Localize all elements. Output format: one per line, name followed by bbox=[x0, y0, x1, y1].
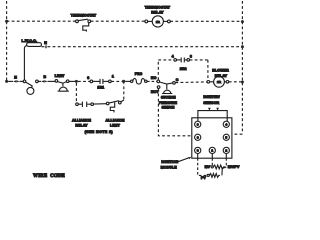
svg-text:1R1: 1R1 bbox=[97, 85, 104, 89]
svg-text:IGNITER/: IGNITER/ bbox=[203, 95, 219, 99]
blower relay 2R bbox=[207, 76, 229, 87]
svg-text:4: 4 bbox=[172, 55, 174, 59]
svg-text:9: 9 bbox=[197, 123, 199, 127]
svg-text:ALLIANCE: ALLIANCE bbox=[106, 119, 125, 123]
svg-text:5: 5 bbox=[225, 136, 227, 140]
wire: dashed riser from NO bbox=[157, 60, 159, 80]
L.W.C.O. device box bbox=[27, 43, 42, 47]
wire: top rung dashed between thermostat and relay bbox=[91, 20, 145, 22]
svg-text:NO: NO bbox=[151, 76, 157, 80]
svg-text:MV/PV: MV/PV bbox=[228, 165, 240, 169]
wire: FRS to NO bbox=[147, 80, 157, 82]
wire: main rung from bus bbox=[8, 80, 13, 82]
node: top-left junction bbox=[5, 20, 8, 23]
svg-text:3: 3 bbox=[197, 149, 199, 153]
svg-text:(SEE NOTE 2): (SEE NOTE 2) bbox=[85, 130, 114, 134]
svg-text:WIRE CODE: WIRE CODE bbox=[33, 174, 66, 179]
module terminal 9 bbox=[195, 121, 201, 127]
diaphragm dome bbox=[162, 90, 172, 93]
svg-text:SENSOR: SENSOR bbox=[203, 101, 219, 105]
svg-text:PV: PV bbox=[201, 176, 206, 180]
svg-text:PRESSURE: PRESSURE bbox=[159, 101, 178, 105]
wire: dashed to 1R1 bbox=[78, 80, 90, 82]
svg-text:BLOWER: BLOWER bbox=[212, 69, 229, 73]
wire: neutral rung dashed bbox=[48, 46, 243, 48]
node: rung/right bus junction bbox=[241, 81, 244, 84]
node: junction at alliance limit tap bbox=[122, 80, 125, 83]
svg-text:6: 6 bbox=[197, 136, 199, 140]
right vertical bus (dashed) bbox=[241, 1, 243, 134]
svg-text:B: B bbox=[44, 75, 47, 79]
svg-text:LIMIT: LIMIT bbox=[55, 74, 66, 78]
svg-text:MODULE: MODULE bbox=[161, 166, 178, 170]
gas valve MV coil bbox=[211, 165, 225, 169]
wire: dashed drop from junction bbox=[75, 83, 77, 103]
wire: dashed riser to junction bbox=[123, 83, 125, 99]
contact 2R2 bbox=[174, 58, 190, 63]
wire: dashed 2R2 to drop bbox=[190, 59, 208, 61]
float switch (L.W.C.O.) bbox=[23, 80, 38, 94]
wire: to FRS bbox=[125, 80, 130, 82]
contact 1R1 bbox=[90, 79, 111, 84]
svg-text:H: H bbox=[14, 75, 17, 79]
svg-text:4: 4 bbox=[225, 123, 227, 127]
stem bbox=[166, 84, 168, 89]
svg-text:1: 1 bbox=[211, 149, 213, 153]
label pointer arrow bbox=[177, 158, 190, 163]
svg-text:C: C bbox=[176, 78, 179, 82]
node: top-right junction bbox=[241, 20, 244, 23]
svg-text:MV: MV bbox=[205, 165, 211, 169]
node: left bus / main rung junction bbox=[5, 80, 8, 83]
switch blade bbox=[160, 82, 173, 84]
FRS fan relay switch bbox=[131, 79, 148, 85]
wire: limit to junction bbox=[69, 80, 75, 82]
limit switch bbox=[55, 80, 69, 92]
svg-text:SUCTION: SUCTION bbox=[161, 95, 176, 99]
svg-text:2: 2 bbox=[225, 149, 227, 153]
alliance limit switch bbox=[106, 100, 124, 113]
C terminal bbox=[173, 82, 176, 85]
thermostat relay 1R bbox=[145, 16, 170, 27]
svg-text:N: N bbox=[44, 41, 47, 45]
gas valve PV coil bbox=[207, 167, 226, 177]
wire: between contacts bbox=[94, 103, 107, 105]
svg-text:RELAY: RELAY bbox=[151, 10, 164, 14]
module terminal 4 bbox=[223, 121, 229, 127]
wire: dashed drop terminal 3 bbox=[197, 154, 199, 159]
svg-text:THERMOSTAT: THERMOSTAT bbox=[145, 6, 171, 10]
wire: box to N bbox=[42, 46, 45, 48]
svg-text:THERMOSTAT: THERMOSTAT bbox=[71, 13, 97, 17]
module terminal 6 bbox=[195, 134, 201, 140]
right bus elbow to ignition module bbox=[232, 133, 242, 135]
wire: segment to B marker bbox=[38, 80, 41, 82]
igniter/sensor bracket arrows bbox=[198, 111, 227, 121]
module terminal 1 bbox=[209, 147, 215, 153]
svg-text:2R2: 2R2 bbox=[180, 67, 187, 71]
wire: dashed drop terminal 2 bbox=[225, 154, 227, 159]
node: junction at alliance tap bbox=[75, 80, 78, 83]
svg-text:1R: 1R bbox=[156, 20, 161, 24]
NO terminal bbox=[157, 80, 160, 83]
node: neutral/right bus junction bbox=[241, 45, 244, 48]
left vertical bus (dashed) bbox=[6, 1, 8, 80]
svg-text:IGNITION: IGNITION bbox=[161, 160, 178, 164]
svg-text:3: 3 bbox=[87, 76, 89, 80]
HOT terminal bbox=[157, 86, 160, 89]
wire: top rung left dashed segment bbox=[7, 20, 76, 22]
svg-text:RELAY: RELAY bbox=[75, 124, 88, 128]
wire: dashed drop terminal 1 bbox=[211, 154, 213, 159]
thermostat switch bbox=[76, 19, 91, 31]
wire: dashed HOT drop to ignition module bbox=[158, 89, 191, 136]
svg-text:SWITCH: SWITCH bbox=[162, 106, 175, 110]
wire: top rung right dashed segment bbox=[170, 20, 242, 22]
module terminal 2 bbox=[223, 147, 229, 153]
svg-text:6: 6 bbox=[190, 55, 192, 59]
wire: drop from LWCO box to float switch bbox=[24, 46, 27, 80]
svg-text:LIMIT: LIMIT bbox=[110, 124, 121, 128]
wire: dashed C to blower relay bbox=[175, 81, 206, 84]
wire: relay to right bus dashed bbox=[229, 81, 241, 83]
wire: dashed to junction bbox=[111, 80, 122, 82]
svg-text:FRS: FRS bbox=[135, 72, 143, 76]
ignition module box bbox=[192, 118, 232, 158]
svg-text:2R: 2R bbox=[217, 80, 222, 84]
svg-text:ALLIANCE: ALLIANCE bbox=[72, 119, 91, 123]
contact alliance relay bbox=[76, 102, 94, 107]
module terminal 5 bbox=[223, 134, 229, 140]
module terminal 3 bbox=[195, 147, 201, 153]
svg-text:1: 1 bbox=[112, 75, 114, 79]
